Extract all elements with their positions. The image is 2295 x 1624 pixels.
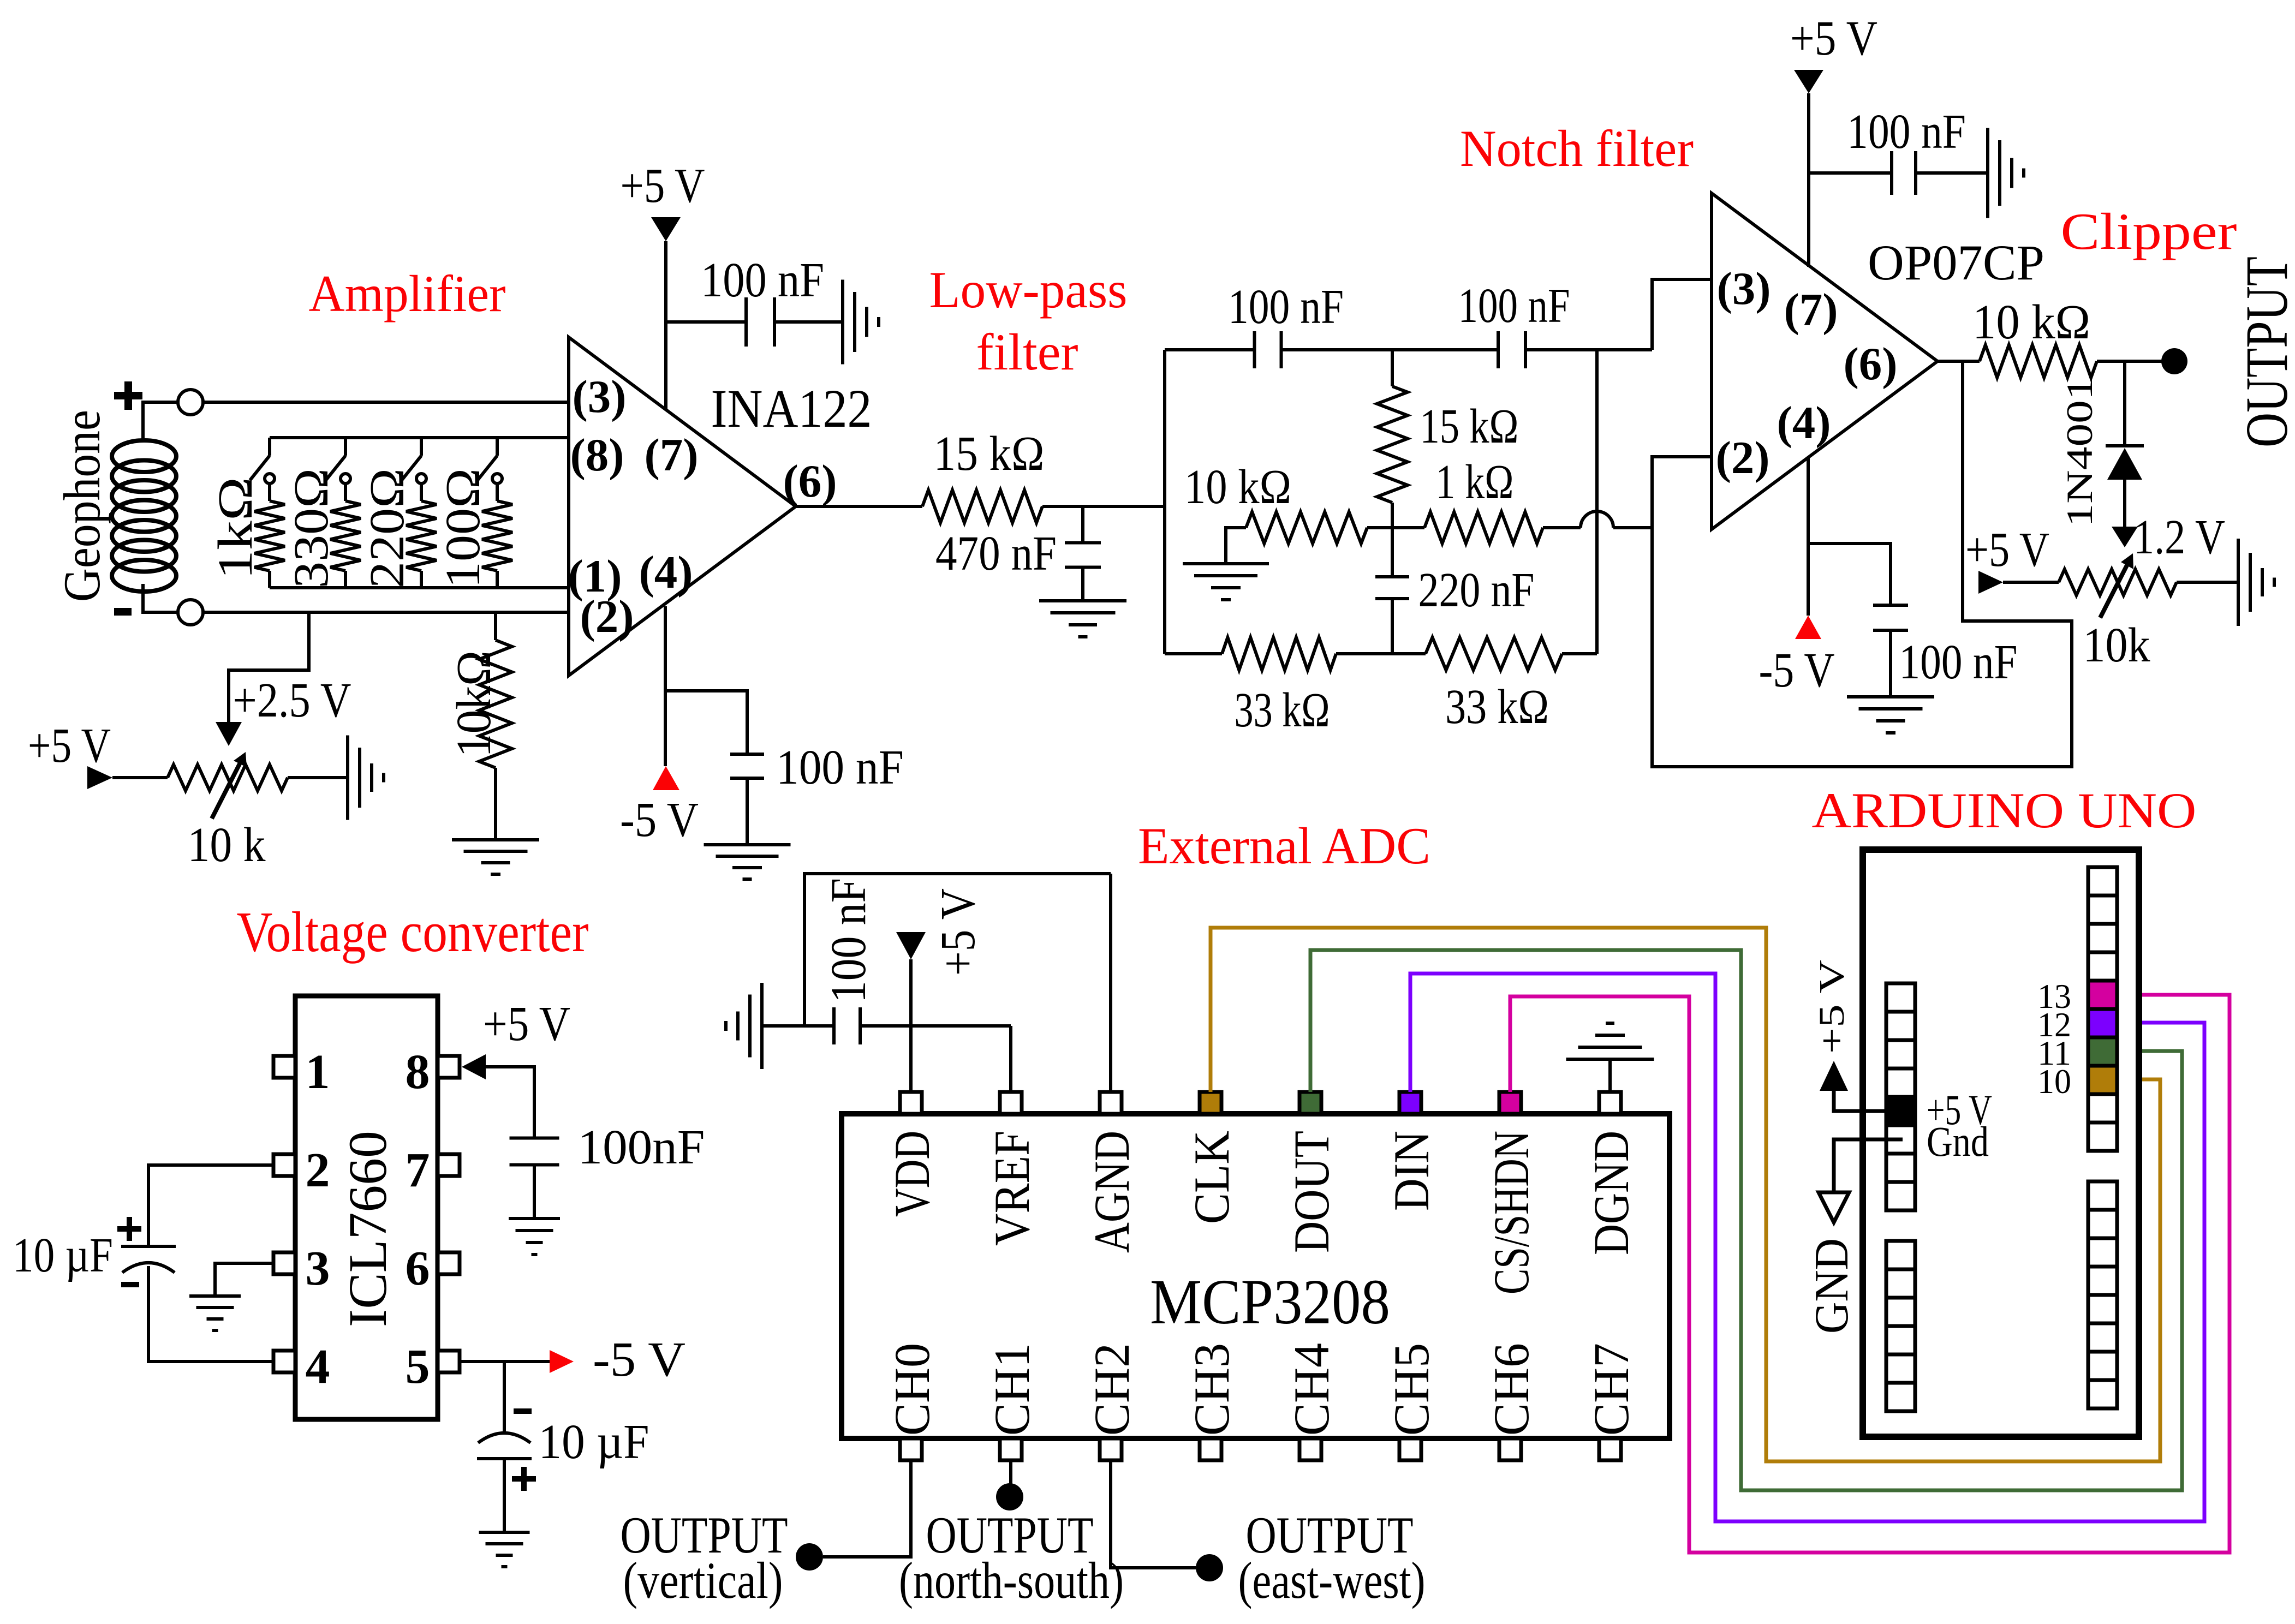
capacitor 100nF (OP07 -5V bypass) <box>1873 605 2018 689</box>
wire: 15k to twin-T <box>1042 505 1165 508</box>
wire: +5V to bypass cap <box>486 1067 534 1138</box>
pin label (6) op07 <box>1843 338 1897 390</box>
svg-text:1 kΩ: 1 kΩ <box>1436 455 1514 509</box>
svg-text:1.2 V: 1.2 V <box>2133 510 2225 564</box>
section label: Amplifier <box>309 265 506 323</box>
net flag -5V (INA supply) <box>620 766 699 847</box>
resistor 10kΩ (twin-T) <box>1184 460 1367 544</box>
ground (ICL7660 output cap) <box>479 1532 530 1567</box>
pin CH7 (MCP3208) <box>1583 1343 1639 1460</box>
wire: + terminal to INA122 pin 3 <box>203 401 569 404</box>
wire: top rail left <box>1165 348 1255 351</box>
node label - (geophone negative) <box>114 608 132 616</box>
wire: coil bottom to - terminal <box>143 584 178 612</box>
wire: cap to ground <box>1916 171 1988 175</box>
pin DIN (MCP3208) <box>1384 1092 1439 1211</box>
net flag +5V (Arduino) <box>1812 960 1852 1091</box>
net flag -5V (OP07 supply) <box>1759 616 1835 697</box>
svg-text:MCP3208: MCP3208 <box>1150 1266 1390 1338</box>
capacitor 100nF (OP07 +5V bypass) <box>1847 105 1966 195</box>
svg-text:filter: filter <box>976 323 1078 381</box>
wire: twin-T left rail <box>1163 350 1166 654</box>
svg-text:Clipper: Clipper <box>2061 202 2237 260</box>
svg-text:External ADC: External ADC <box>1138 817 1430 875</box>
wire: -5V node to output cap <box>503 1362 506 1434</box>
capacitor 100nF (twin-T second) <box>1458 279 1570 368</box>
capacitor 220nF (twin-T) <box>1375 563 1535 654</box>
net flag +5V (OP07 supply) <box>1790 11 1877 93</box>
ground (clipper pot) <box>2238 539 2274 626</box>
terminal - <box>178 600 203 625</box>
potentiometer 10k (offset) <box>168 752 288 872</box>
wire: twin-T right rail <box>1595 350 1599 654</box>
wire: DGND to ground <box>1608 1059 1612 1092</box>
pin number 13 <box>2037 977 2071 1016</box>
wire: cap to VREF <box>860 1026 1011 1092</box>
net flag +2.5V <box>216 673 351 746</box>
wire: CLK lead (olive) <box>1211 928 2160 1461</box>
ground (LPF cap) <box>1039 601 1126 637</box>
svg-text:(3): (3) <box>1716 263 1771 314</box>
wire: bottom rail middle <box>1336 652 1426 655</box>
svg-text:INA122: INA122 <box>711 378 872 439</box>
pin DGND (MCP3208) <box>1583 1092 1639 1255</box>
pin label (4) <box>639 547 693 598</box>
section label: Notch filter <box>1460 120 1694 177</box>
wire: CH1 to north-south output <box>1009 1460 1012 1484</box>
node label OUTPUT (clipper) <box>2233 256 2295 447</box>
wire: REF node to +2.5V tap <box>229 612 309 722</box>
wire: top rail middle <box>1281 348 1498 351</box>
svg-text:100 nF: 100 nF <box>1899 635 2018 689</box>
wire: 10k to junction <box>1367 526 1424 529</box>
geophone (coil + label) <box>53 410 176 602</box>
section label: Voltage converter <box>237 900 589 964</box>
svg-text:Low-pass: Low-pass <box>929 261 1128 319</box>
svg-text:1: 1 <box>306 1045 330 1099</box>
svg-text:-5 V: -5 V <box>1759 643 1835 697</box>
svg-text:-5 V: -5 V <box>593 1333 685 1387</box>
wire: branch to bypass cap <box>1809 171 1892 175</box>
pin CLK (MCP3208) <box>1184 1092 1239 1224</box>
wire: Gnd cell to GND arrow <box>1834 1139 1903 1192</box>
ground (ICL7660 pin 3) <box>189 1296 241 1330</box>
header lower-right <box>2088 1181 2117 1408</box>
diode D1 1N4001 <box>2059 361 2144 547</box>
wire: pump cap to pin 4 <box>148 1266 273 1362</box>
node label 1.2V <box>2133 510 2225 564</box>
pin AGND (MCP3208) <box>1084 1092 1140 1253</box>
pin CH2 (MCP3208) <box>1084 1343 1140 1460</box>
svg-text:CH4: CH4 <box>1284 1343 1339 1436</box>
wire: INA pin 4 to -5V <box>664 606 667 766</box>
svg-text:10 k: 10 k <box>188 818 266 872</box>
section label: External ADC <box>1138 817 1430 875</box>
node label OUTPUT (east-west) <box>1238 1506 1426 1609</box>
pin label (8) <box>570 429 624 481</box>
resistor 220Ω (gain select) <box>360 468 437 588</box>
wire: feedback loop out to pin 2 <box>1652 361 2072 767</box>
svg-text:+5 V: +5 V <box>1965 523 2049 577</box>
svg-text:CH7: CH7 <box>1583 1343 1639 1436</box>
svg-text:CH2: CH2 <box>1084 1343 1140 1436</box>
pin 5 stub ICL7660 <box>406 1340 460 1394</box>
pin CH4 (MCP3208) <box>1284 1343 1339 1460</box>
wire: ground step to 10k <box>1226 528 1246 564</box>
wire: gain bus to pin 1 <box>270 586 569 589</box>
ground (below 10kΩ) <box>452 840 539 874</box>
pin 4 stub ICL7660 <box>273 1340 330 1394</box>
svg-text:100 nF: 100 nF <box>1847 105 1966 159</box>
wire: +5V to pot <box>2003 581 2059 584</box>
wire: cap to ground <box>774 320 843 324</box>
pin label Gnd cell <box>1927 1118 1989 1165</box>
wire: cap to ground <box>746 778 749 845</box>
ground (ICL7660 cap) <box>509 1219 560 1255</box>
header upper-right (digital 13-10) <box>2088 867 2117 1151</box>
svg-text:(2): (2) <box>1715 432 1769 483</box>
pin label (1) <box>568 551 622 602</box>
pin label +5V cell <box>1927 1086 1992 1133</box>
svg-text:+5 V: +5 V <box>621 159 705 213</box>
svg-text:+5 V: +5 V <box>1812 960 1852 1054</box>
pin label (2) op07 <box>1715 432 1769 483</box>
svg-text:1kΩ: 1kΩ <box>208 477 263 580</box>
svg-text:100 nF: 100 nF <box>820 878 876 1003</box>
wire: pin 3 to ground <box>215 1263 273 1296</box>
svg-text:DIN: DIN <box>1384 1131 1439 1211</box>
svg-text:+2.5 V: +2.5 V <box>233 673 351 727</box>
output terminal dot <box>2161 348 2187 374</box>
wire: AGND loop <box>804 874 1111 1092</box>
op-amp U1 INA122 <box>569 337 872 676</box>
wire: +5V to INA pin 7 <box>664 241 667 410</box>
svg-text:(east-west): (east-west) <box>1238 1551 1426 1609</box>
pin number 12 <box>2037 1005 2071 1044</box>
wire: DIN lead (violet) <box>1410 974 2204 1521</box>
net flag +5V (INA supply) <box>621 159 705 241</box>
svg-text:Voltage converter: Voltage converter <box>237 900 589 964</box>
header upper-left (power) with +5V and Gnd cells <box>1886 983 1915 1210</box>
svg-text:+5 V: +5 V <box>483 997 570 1051</box>
switch S3 <box>402 438 426 483</box>
switch S1 <box>250 438 275 483</box>
svg-text:100nF: 100nF <box>578 1120 705 1174</box>
capacitor 10µF (charge pump) <box>13 1217 176 1285</box>
svg-text:(7): (7) <box>1784 284 1838 336</box>
svg-text:7: 7 <box>406 1143 430 1197</box>
svg-text:10 µF: 10 µF <box>13 1228 113 1282</box>
svg-text:ARDUINO UNO: ARDUINO UNO <box>1812 783 2197 838</box>
svg-text:(6): (6) <box>783 456 837 507</box>
svg-text:8: 8 <box>406 1045 430 1099</box>
svg-text:220 nF: 220 nF <box>1418 563 1535 617</box>
svg-text:(8): (8) <box>570 429 624 481</box>
op-amp U2 OP07CP <box>1712 193 2044 529</box>
resistor 10kΩ (clipper) <box>1972 295 2097 378</box>
wire: pin 2 to pump cap <box>148 1165 273 1246</box>
pin 7 stub ICL7660 <box>406 1143 460 1197</box>
board Arduino Uno outline <box>1863 850 2139 1437</box>
node label + (geophone positive) <box>114 381 142 410</box>
capacitor 470nF (LPF) <box>935 506 1101 601</box>
svg-text:+5 V: +5 V <box>1790 11 1877 65</box>
wire: pin4 branch to bypass cap <box>665 691 747 754</box>
resistor 330Ω (gain select) <box>284 468 361 588</box>
terminal dot OUTPUT north-south <box>996 1483 1023 1510</box>
wire: top rail right to pin 3 <box>1525 279 1712 350</box>
wire: +5V to OP07 pin 7 <box>1807 93 1810 267</box>
pin CH1 (MCP3208) <box>984 1343 1040 1460</box>
pin DOUT (MCP3208) <box>1284 1092 1339 1253</box>
pin label (7) op07 <box>1784 284 1838 336</box>
pin 2 stub ICL7660 <box>273 1143 330 1197</box>
svg-text:100 nF: 100 nF <box>776 741 904 795</box>
pin VREF (MCP3208) <box>984 1092 1040 1246</box>
pin label (4) op07 <box>1777 397 1831 449</box>
capacitor 100nF (ADC) <box>820 878 876 1044</box>
svg-text:10 µF: 10 µF <box>539 1415 649 1469</box>
wire: INA out (6) to 15k <box>796 505 922 508</box>
capacitor 100nF (INA -5V bypass) <box>730 741 904 795</box>
svg-text:ICL7660: ICL7660 <box>337 1131 398 1327</box>
resistor 33kΩ (twin-T right) <box>1426 637 1562 734</box>
section label: ARDUINO UNO <box>1812 783 2197 838</box>
capacitor 10µF (output) <box>477 1411 649 1491</box>
svg-text:GND: GND <box>1805 1238 1858 1334</box>
terminal + <box>178 390 203 415</box>
wire: 10k to output node <box>2097 360 2162 363</box>
switch S2 <box>326 438 350 483</box>
svg-text:1N4001: 1N4001 <box>2059 377 2100 527</box>
svg-text:OP07CP: OP07CP <box>1868 235 2044 290</box>
section label: Low-pass filter <box>929 261 1128 381</box>
net flag GND (Arduino, open arrow) <box>1805 1192 1858 1334</box>
wire: coil top to + terminal <box>143 402 178 441</box>
node label OUTPUT (north-south) <box>899 1506 1124 1609</box>
svg-text:VREF: VREF <box>984 1131 1040 1246</box>
svg-text:470 nF: 470 nF <box>935 527 1057 581</box>
pin label (6) <box>783 456 837 507</box>
wire hop over right rail <box>1581 511 1613 528</box>
svg-text:10 kΩ: 10 kΩ <box>1972 295 2090 349</box>
wire: pin 5 to -5V <box>460 1360 550 1363</box>
wire: bottom rail right <box>1562 652 1597 655</box>
wire: DOUT lead (green) <box>1310 950 2182 1490</box>
resistor 10kΩ (REF divider) <box>447 612 512 840</box>
svg-text:CS/SHDN: CS/SHDN <box>1483 1131 1539 1294</box>
svg-text:CH0: CH0 <box>884 1343 940 1436</box>
pin number 10 <box>2037 1062 2071 1101</box>
net flag +5V (ICL7660 pin 8) <box>462 997 570 1079</box>
IC U3 ICL7660 <box>295 996 438 1419</box>
svg-text:+5 V: +5 V <box>28 719 111 773</box>
ground (OP07 +5V bypass) <box>1988 128 2024 218</box>
svg-text:(2): (2) <box>580 591 634 642</box>
svg-text:(north-south): (north-south) <box>899 1551 1124 1609</box>
resistor 33kΩ (twin-T left) <box>1222 637 1336 737</box>
wire: hop to OP07 pin 2 <box>1613 457 1712 528</box>
pin CS/SHDN (MCP3208) <box>1483 1092 1539 1294</box>
ground (INA +5V bypass) <box>843 280 879 365</box>
svg-text:(vertical): (vertical) <box>623 1551 783 1609</box>
svg-text:220Ω: 220Ω <box>360 468 414 588</box>
capacitor 100nF (ICL7660) <box>510 1120 705 1174</box>
pin label (2) <box>580 591 634 642</box>
svg-text:10: 10 <box>2037 1062 2071 1101</box>
svg-text:10k: 10k <box>2083 618 2150 672</box>
wire: ground to cap <box>762 1024 834 1028</box>
svg-text:2: 2 <box>306 1143 330 1197</box>
svg-text:10 kΩ: 10 kΩ <box>1184 460 1291 514</box>
svg-text:(3): (3) <box>572 371 626 422</box>
svg-text:CH6: CH6 <box>1483 1343 1539 1436</box>
svg-text:Gnd: Gnd <box>1927 1118 1989 1165</box>
resistor 1kΩ (gain select) <box>208 477 285 588</box>
pin label (3) <box>572 371 626 422</box>
svg-text:100 nF: 100 nF <box>1458 279 1570 333</box>
IC U4 MCP3208 <box>842 1114 1670 1438</box>
switch S4 <box>478 438 502 483</box>
wire: 1k to hop <box>1543 526 1581 529</box>
pin 1 stub ICL7660 <box>273 1045 330 1099</box>
svg-text:Geophone: Geophone <box>53 410 111 602</box>
capacitor 100nF (INA +5V bypass) <box>701 253 824 347</box>
capacitor 100nF (twin-T first) <box>1228 280 1344 368</box>
resistor 15kΩ (LPF) <box>922 427 1045 523</box>
wire: CS/SHDN lead (magenta) <box>1510 995 2230 1553</box>
ground (DGND, inverted) <box>1566 1023 1654 1059</box>
svg-text:(7): (7) <box>644 429 698 481</box>
svg-text:10kΩ: 10kΩ <box>447 650 501 757</box>
pin number 11 <box>2037 1034 2071 1072</box>
svg-text:15 kΩ: 15 kΩ <box>934 427 1045 481</box>
net flag +5V (ADC) <box>896 888 985 976</box>
svg-text:Amplifier: Amplifier <box>309 265 506 323</box>
net flag -5V (ICL7660 out) <box>550 1333 685 1387</box>
wire: +5V arrow to +5V cell <box>1834 1091 1886 1111</box>
svg-text:(4): (4) <box>1777 397 1831 449</box>
svg-text:100 nF: 100 nF <box>701 253 824 307</box>
wire: - terminal to INA122 pin 2 <box>203 611 569 614</box>
wire: cap to ground <box>503 1459 506 1532</box>
svg-text:OUTPUT: OUTPUT <box>2233 256 2295 447</box>
wire: OP07 pin 4 to -5V <box>1807 457 1810 616</box>
svg-text:33 kΩ: 33 kΩ <box>1445 680 1549 734</box>
pin label (3) op07 <box>1716 263 1771 314</box>
wire: pot to ground <box>2177 581 2238 584</box>
pin CH6 (MCP3208) <box>1483 1343 1539 1460</box>
ground (ADC cap, rotated left) <box>726 983 762 1069</box>
ground (OP07 -5V bypass) <box>1847 697 1934 733</box>
potentiometer 10k (clipper) <box>2059 553 2177 672</box>
pin VDD (MCP3208) <box>884 1092 940 1217</box>
node label OUTPUT (vertical) <box>621 1506 788 1609</box>
svg-text:DGND: DGND <box>1583 1131 1639 1255</box>
wire: pot to ground <box>288 776 348 779</box>
svg-text:CH5: CH5 <box>1384 1343 1439 1436</box>
svg-text:-5 V: -5 V <box>620 793 699 847</box>
header lower-left <box>1886 1241 1915 1411</box>
svg-text:100 nF: 100 nF <box>1228 280 1344 334</box>
section label: Clipper <box>2061 202 2237 260</box>
wire: +5V branch to bypass cap <box>666 320 746 324</box>
svg-text:100Ω: 100Ω <box>436 468 490 588</box>
terminal dot OUTPUT east-west <box>1196 1554 1223 1581</box>
ground (INA -5V bypass) <box>704 845 791 879</box>
net flag +5V (clipper pot) <box>1965 523 2049 594</box>
pin 3 stub ICL7660 <box>273 1241 330 1295</box>
svg-text:330Ω: 330Ω <box>284 468 338 588</box>
pin CH3 (MCP3208) <box>1184 1343 1239 1460</box>
svg-text:CH3: CH3 <box>1184 1343 1239 1436</box>
svg-text:Notch filter: Notch filter <box>1460 120 1694 177</box>
svg-text:(4): (4) <box>639 547 693 598</box>
resistor 100Ω (gain select) <box>436 468 512 588</box>
wire: OP07 out <box>1938 360 1980 363</box>
wire: cap to ground <box>533 1165 536 1218</box>
svg-text:VDD: VDD <box>884 1131 940 1217</box>
pin CH5 (MCP3208) <box>1384 1343 1439 1460</box>
wire: CH0 to vertical output <box>823 1460 911 1557</box>
wire: cap to ground <box>1889 630 1892 697</box>
net flag +5V (offset pot) <box>28 719 112 789</box>
resistor 15kΩ (twin-T vertical) <box>1377 350 1519 577</box>
wire: gain bus to pin 8 <box>270 436 569 439</box>
svg-text:DOUT: DOUT <box>1284 1131 1339 1253</box>
svg-text:AGND: AGND <box>1084 1131 1140 1253</box>
svg-text:15 kΩ: 15 kΩ <box>1420 399 1519 453</box>
ground (right of pot) <box>348 736 384 820</box>
svg-text:33 kΩ: 33 kΩ <box>1235 683 1330 737</box>
svg-text:+5 V: +5 V <box>931 888 985 976</box>
resistor 1kΩ (twin-T) <box>1424 455 1543 544</box>
pin label (7) <box>644 429 698 481</box>
svg-text:4: 4 <box>306 1340 330 1394</box>
svg-text:5: 5 <box>406 1340 430 1394</box>
wire: pin4 branch to bypass cap <box>1808 544 1891 605</box>
wire: bottom rail left <box>1165 652 1222 655</box>
svg-text:3: 3 <box>306 1241 330 1295</box>
wire: +5V to VDD <box>909 959 913 1092</box>
pin CH0 (MCP3208) <box>884 1343 940 1460</box>
svg-text:CH1: CH1 <box>984 1343 1040 1436</box>
terminal dot OUTPUT vertical <box>796 1543 823 1571</box>
pin 8 stub ICL7660 <box>406 1045 460 1099</box>
svg-text:(6): (6) <box>1843 338 1897 390</box>
svg-text:6: 6 <box>406 1241 430 1295</box>
pin 6 stub ICL7660 <box>406 1241 460 1295</box>
wire: CH2 to east-west output <box>1111 1460 1196 1568</box>
svg-text:CLK: CLK <box>1184 1131 1239 1224</box>
ground (twin-T middle) <box>1183 564 1269 600</box>
wire: +5V to pot <box>112 776 168 779</box>
